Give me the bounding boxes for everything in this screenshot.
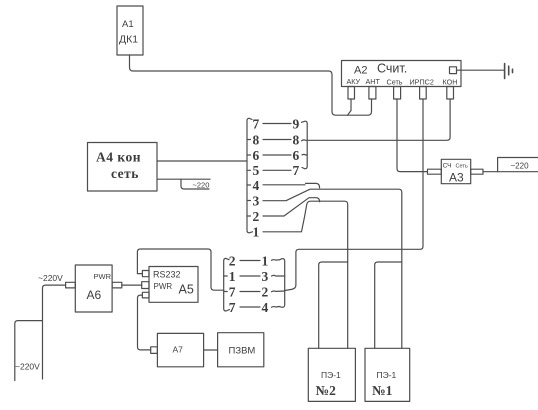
svg-text:2: 2 bbox=[229, 253, 236, 268]
X2 left bracket hooks bbox=[224, 276, 228, 292]
svg-text:А6: А6 bbox=[87, 288, 102, 302]
svg-text:ПЭ-1: ПЭ-1 bbox=[321, 370, 341, 380]
connector X1 left bracket bbox=[247, 118, 253, 233]
svg-text:7: 7 bbox=[293, 163, 300, 178]
pin ИРПС2 of A2 bbox=[420, 87, 427, 100]
A5 PWR tab bbox=[142, 282, 149, 289]
connector X2 right bracket bbox=[279, 259, 285, 308]
svg-text:ИРПС2: ИРПС2 bbox=[410, 78, 434, 87]
wire A5 lower tab to A7 left tab bbox=[138, 295, 151, 350]
svg-text:7: 7 bbox=[229, 284, 236, 299]
block A4 кон сеть bbox=[88, 143, 158, 192]
X1 right bracket tildes bbox=[302, 140, 308, 155]
wire A7 to ПЗВМ bbox=[204, 349, 218, 351]
wire ИРПС2 pin down, left along bus, down to connector X2 right bracket bbox=[285, 99, 423, 291]
svg-text:9: 9 bbox=[293, 116, 300, 131]
svg-text:6: 6 bbox=[293, 148, 300, 163]
svg-text:А1: А1 bbox=[122, 19, 134, 30]
A6 left tab bbox=[66, 282, 76, 288]
wire X2 7-4 bbox=[240, 306, 260, 308]
svg-text:А5: А5 bbox=[179, 283, 194, 297]
svg-text:ПЭ-1: ПЭ-1 bbox=[377, 370, 397, 380]
svg-text:Сеть: Сеть bbox=[456, 163, 468, 169]
svg-text:PWR: PWR bbox=[94, 272, 112, 281]
svg-text:2: 2 bbox=[253, 209, 260, 224]
A6 right tab bbox=[112, 282, 122, 288]
svg-text:КОН: КОН bbox=[443, 78, 458, 87]
A2 terminal square (ground lug) bbox=[450, 67, 457, 74]
pin ANT of A2 bbox=[369, 87, 376, 100]
svg-text:АКУ: АКУ bbox=[347, 77, 361, 86]
wire КОН pin to connector X1 pin8 long line bbox=[307, 99, 450, 140]
A3 right tab bbox=[471, 169, 483, 174]
svg-text:RS232: RS232 bbox=[153, 270, 181, 280]
connector X2 left bracket bbox=[224, 258, 230, 311]
svg-text:ПЗВМ: ПЗВМ bbox=[229, 346, 256, 357]
X2 right bracket tildes bbox=[272, 260, 285, 308]
svg-text:1: 1 bbox=[253, 225, 260, 240]
ground symbol bbox=[505, 64, 513, 79]
svg-text:Счит.: Счит. bbox=[377, 62, 407, 76]
svg-text:А7: А7 bbox=[173, 345, 184, 355]
svg-text:№2: №2 bbox=[316, 383, 337, 398]
wire AKU pin tick junction bbox=[348, 99, 352, 115]
wire X2 1-3 bbox=[240, 275, 260, 277]
label flag ~220 (A4 mains) bbox=[181, 179, 209, 189]
svg-text:А4 кон: А4 кон bbox=[96, 150, 141, 165]
wire A3 to mains flag bbox=[483, 171, 498, 173]
wire X1 pin3 to PE1 right lead bbox=[263, 189, 402, 348]
svg-text:АНТ: АНТ bbox=[366, 77, 381, 86]
svg-text:ДК1: ДК1 bbox=[119, 34, 138, 46]
X1 right pin numbers bbox=[293, 116, 300, 178]
block A1 (ДК1) bbox=[117, 6, 143, 55]
wire A6 to A5 PWR tab bbox=[122, 284, 142, 286]
wire X1 6-6 bbox=[263, 154, 291, 156]
A3 left tab bbox=[428, 169, 442, 174]
svg-text:Сеть: Сеть bbox=[387, 78, 403, 87]
wire A4 to ~220 tap bbox=[157, 178, 210, 180]
wire X2 2-1 bbox=[240, 260, 260, 262]
X2 right pin numbers bbox=[262, 253, 269, 315]
svg-text:7: 7 bbox=[253, 116, 260, 131]
block A2 Счит. bbox=[342, 61, 462, 87]
svg-text:1: 1 bbox=[229, 269, 236, 284]
svg-text:3: 3 bbox=[253, 193, 260, 208]
svg-text:~220V: ~220V bbox=[15, 362, 40, 372]
svg-text:№1: №1 bbox=[372, 383, 393, 398]
X1 left bracket hooks bbox=[247, 140, 251, 217]
wire ПЭ-1 №2 left lead (loop to right lead) bbox=[319, 262, 348, 348]
pin AKU of A2 bbox=[348, 87, 355, 100]
svg-text:6: 6 bbox=[253, 148, 260, 163]
wire A1 to A2 ANT pin (U-route under AKU/ANT) bbox=[130, 55, 372, 115]
block A5 (RS232 / PWR) bbox=[149, 267, 198, 303]
svg-text:3: 3 bbox=[262, 269, 269, 284]
svg-text:сеть: сеть bbox=[111, 166, 139, 181]
svg-text:4: 4 bbox=[262, 300, 269, 315]
block ПЭ-1 №1 bbox=[365, 348, 410, 401]
svg-text:4: 4 bbox=[253, 178, 260, 193]
wire X1 8-8 bbox=[263, 139, 291, 141]
block A3 (СЧ Сеть) bbox=[441, 159, 470, 184]
A5 lower tab bbox=[142, 292, 149, 298]
pin КОН of A2 bbox=[447, 87, 454, 100]
svg-text:8: 8 bbox=[253, 132, 260, 147]
X2 left pin numbers bbox=[229, 253, 236, 315]
wire X1 7-9 bbox=[263, 123, 291, 125]
wire RS232 of A5 up-and-over to connector X2 left bracket bbox=[137, 249, 223, 290]
wire X1 5-7 bbox=[263, 169, 291, 171]
wire Сеть pin to A3 left tab bbox=[397, 99, 428, 172]
wire X1 pin2 (hook onto line1) bbox=[263, 198, 320, 216]
wire A4 to X1 bracket bbox=[157, 160, 247, 162]
svg-text:А2: А2 bbox=[354, 65, 367, 77]
A7 left tab bbox=[151, 347, 158, 354]
svg-text:2: 2 bbox=[262, 284, 269, 299]
block ПЭ-1 №2 bbox=[308, 348, 355, 401]
wire X2 7-2 bbox=[240, 291, 260, 293]
svg-text:8: 8 bbox=[293, 132, 300, 147]
svg-text:PWR: PWR bbox=[154, 282, 173, 291]
svg-text:7: 7 bbox=[229, 300, 236, 315]
svg-text:1: 1 bbox=[262, 253, 269, 268]
wire A2 to ground bbox=[457, 69, 505, 71]
svg-text:~220: ~220 bbox=[193, 180, 210, 189]
wire mains cord to A6 left tab bbox=[43, 285, 66, 379]
block A6 (PWR) bbox=[75, 265, 112, 312]
block ПЗВМ bbox=[218, 333, 264, 367]
svg-text:СЧ: СЧ bbox=[443, 162, 452, 169]
svg-text:А3: А3 bbox=[449, 171, 464, 185]
wire X1 pin4 (hook onto line3) bbox=[263, 183, 320, 188]
wire mains cord branch bbox=[15, 321, 43, 381]
label flag ~220 (right mains) bbox=[498, 158, 538, 172]
svg-text:5: 5 bbox=[253, 163, 260, 178]
X1 left pin numbers bbox=[253, 116, 260, 239]
svg-text:~220V: ~220V bbox=[38, 273, 63, 283]
A5 RS232 tab bbox=[142, 271, 149, 277]
wire ПЭ-1 №1 left lead (loop to right lead) bbox=[375, 262, 402, 348]
block A7 bbox=[157, 333, 203, 366]
svg-text:~220: ~220 bbox=[511, 162, 530, 171]
wire X1 pin1 to PE2 right lead bbox=[263, 201, 348, 348]
connector X1 right bracket bbox=[302, 121, 308, 169]
pin Сеть of A2 bbox=[394, 87, 401, 100]
